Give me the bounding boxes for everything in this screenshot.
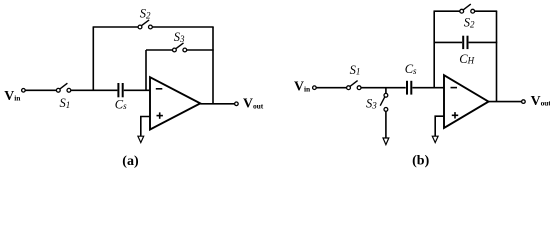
svg-text:Cs: Cs [115, 98, 127, 112]
svg-text:S2: S2 [140, 7, 151, 21]
svg-text:Vout: Vout [243, 96, 264, 111]
svg-text:S3: S3 [366, 97, 377, 111]
svg-text:Cs: Cs [405, 62, 417, 76]
svg-text:S2: S2 [464, 16, 475, 30]
svg-text:Vin: Vin [294, 79, 311, 94]
svg-text:(a): (a) [122, 154, 139, 169]
svg-text:Vout: Vout [531, 93, 550, 108]
svg-text:S3: S3 [174, 30, 185, 44]
svg-text:Vin: Vin [4, 88, 21, 103]
svg-text:S1: S1 [350, 63, 361, 77]
svg-text:(b): (b) [412, 153, 429, 168]
svg-text:S1: S1 [60, 96, 71, 110]
svg-text:CH: CH [459, 52, 474, 66]
